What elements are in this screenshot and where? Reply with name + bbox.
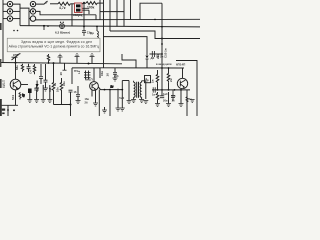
resistor R10 vertical — [157, 92, 159, 93]
diode D2 — [146, 56, 149, 59]
svg-text:1и: 1и — [152, 93, 155, 97]
svg-text:20и: 20и — [163, 99, 168, 103]
capacitor C9 below bus — [82, 26, 86, 36]
resistor R7 vertical — [61, 78, 63, 82]
resistor R11 cathode — [19, 92, 21, 99]
svg-text:6И1П: 6И1П — [2, 79, 6, 88]
capacitor C11 stub — [63, 69, 67, 71]
terminal J5 — [30, 9, 35, 14]
node R9 top — [168, 67, 170, 69]
trimmer capacitor CT — [12, 54, 20, 60]
node grid junction — [15, 62, 17, 64]
wire right area y90 — [152, 89, 190, 91]
transformer T1 secondary — [140, 82, 142, 97]
node x110 — [109, 89, 111, 91]
svg-text:1и: 1и — [151, 79, 155, 83]
left edge artifact 3 — [0, 79, 2, 88]
transistor V3 envelope — [177, 78, 187, 88]
wire J5 long line — [36, 11, 96, 14]
capacitor C7 — [77, 86, 79, 94]
terminal J1 — [7, 1, 12, 6]
capacitor C5 — [45, 64, 47, 80]
wire vertical x110 — [109, 0, 111, 31]
ground GND7 — [120, 108, 125, 111]
wire elbow y31 — [110, 31, 200, 39]
transistor V2 electrodes — [91, 84, 93, 89]
node x162 y44 — [161, 43, 163, 45]
ground GND-b — [75, 54, 80, 64]
wire J2 link — [13, 10, 20, 12]
ground GND13 — [166, 92, 171, 107]
resistor R5 above bus — [47, 54, 49, 63]
resistor R2 — [86, 2, 97, 5]
wire R1 to X1 — [70, 3, 74, 5]
wire C8b lead — [128, 98, 130, 101]
svg-text:10к: 10к — [62, 81, 66, 86]
terminal J4 — [30, 1, 35, 6]
capacitor C3 — [27, 67, 31, 69]
crystal X1 red box — [75, 3, 83, 13]
ground row GND4 — [41, 85, 46, 103]
node bottom left — [7, 109, 9, 111]
svg-text:2и: 2и — [169, 78, 173, 82]
capacitor C10 — [161, 90, 163, 96]
wire J1 stub — [3, 3, 7, 5]
wire V2 right — [98, 87, 122, 90]
transistor V2 envelope — [90, 82, 99, 91]
wire J2 stub — [3, 10, 7, 12]
crystal X1 plates — [76, 4, 81, 7]
resistor R4 vertical — [33, 64, 35, 74]
wire vertical x124 — [123, 0, 125, 27]
wire to tube grid — [15, 57, 17, 79]
svg-text:С10 1и: С10 1и — [164, 48, 168, 58]
capacitor C6 — [69, 90, 73, 92]
diode D1 — [36, 84, 39, 87]
wire V2 top feed — [93, 68, 95, 82]
wire AGC vertical x118 — [117, 89, 119, 108]
svg-text:ПЧ: ПЧ — [74, 69, 78, 73]
wire V2 bottom pins — [92, 90, 99, 117]
transformer T1 core — [137, 82, 139, 98]
svg-text:С4: С4 — [29, 70, 33, 74]
wire J5 left stub — [29, 10, 30, 12]
wire main ground bus — [20, 26, 200, 27]
wire left vertical rail — [2, 0, 4, 63]
node x162 bus2 — [161, 67, 163, 69]
ground GND9 — [143, 101, 148, 104]
node x162 y38 — [161, 38, 163, 40]
node at 97 — [96, 26, 98, 28]
svg-text:100к: 100к — [87, 5, 95, 9]
wire inner riser — [28, 11, 30, 25]
node x162 bus — [161, 26, 163, 28]
resistor R8 vertical — [157, 70, 159, 74]
terminal J3 — [7, 16, 12, 21]
node x162b — [161, 89, 163, 91]
output transformer box — [145, 76, 151, 83]
wire T1 top lead — [122, 80, 129, 82]
ground GND10b — [127, 101, 132, 104]
wire vertical x100 — [99, 0, 101, 20]
wire jog x122 — [122, 54, 136, 68]
wire vertical x130 — [130, 0, 132, 19]
left edge artifact 2 — [0, 59, 1, 67]
node dots pair — [13, 30, 15, 32]
ground GND15 — [190, 100, 195, 103]
wire drop to bus2 — [95, 15, 97, 20]
wire feed drop left — [71, 4, 73, 27]
svg-text:68к: 68к — [15, 65, 19, 70]
wire X1 to R2 — [82, 2, 86, 5]
svg-text:Айна строительнымй VC-1 должна: Айна строительнымй VC-1 должна принята с… — [9, 45, 100, 49]
ground GND-V2 — [93, 103, 98, 106]
wire V3 pin right — [186, 90, 188, 116]
ground GND11 — [116, 108, 121, 111]
svg-text:10: 10 — [59, 72, 63, 76]
wire x162 lower — [161, 68, 163, 90]
ground GND-c — [90, 54, 95, 64]
wire antenna lead — [36, 1, 48, 4]
capacitor C16 — [34, 88, 39, 90]
capacitor C8 small — [113, 68, 118, 81]
capacitor C14 — [171, 90, 175, 101]
wire V1 anode — [21, 84, 28, 86]
capacitor C4 — [40, 64, 42, 76]
svg-text:2б: 2б — [85, 100, 88, 104]
node x157 — [157, 89, 159, 91]
wire long grid bus — [36, 18, 200, 21]
node V3 cathode — [180, 89, 182, 91]
svg-text:8и: 8и — [189, 97, 192, 101]
node at 44 — [43, 25, 45, 27]
resistor R12 — [186, 96, 188, 103]
svg-text:1б: 1б — [106, 73, 110, 77]
wire right top stub — [176, 60, 197, 62]
ground GND-d — [43, 86, 48, 91]
svg-text:4,7к: 4,7к — [59, 6, 66, 10]
wire bus right horizontal — [100, 67, 184, 69]
wire top-right box — [140, 3, 162, 19]
wire V3 cathode — [180, 90, 182, 104]
left edge artifact 1 — [0, 23, 2, 30]
wire R2 right — [97, 2, 103, 4]
wire J6 left stub — [29, 18, 30, 20]
wire D2 to bus — [146, 59, 148, 68]
transistor V1 electrodes — [12, 82, 14, 88]
node bus x88 — [88, 63, 90, 65]
svg-text:6,3 В(мил): 6,3 В(мил) — [55, 30, 70, 34]
wire cap stub x152 — [150, 53, 163, 55]
wire V3 top feed — [182, 68, 184, 78]
inductor DR1 — [96, 27, 98, 31]
wire bottom left drop — [7, 105, 9, 116]
transformer T1 primary — [134, 82, 136, 97]
ground row GND5 — [47, 85, 52, 103]
wire bus left horizontal — [0, 63, 122, 64]
node x162 y54 — [161, 53, 163, 55]
svg-text:6И1П: 6И1П — [85, 78, 93, 82]
ground GND10 — [102, 107, 107, 113]
svg-text:5б1: 5б1 — [11, 95, 15, 100]
wire vertical x103 — [103, 0, 105, 68]
capacitor C15 body — [28, 89, 32, 94]
node bus x53 — [53, 62, 55, 64]
wire inner jog — [20, 8, 29, 11]
svg-text:АД: АД — [48, 88, 52, 92]
note box — [7, 38, 100, 52]
wire J3 stub — [3, 18, 7, 20]
svg-text:Здесь видны и щит медн. Фидера: Здесь видны и щит медн. Фидера со дел — [21, 40, 92, 44]
node V3 left — [174, 89, 176, 91]
transistor V1 envelope — [10, 79, 21, 90]
node x122 — [121, 89, 123, 91]
node X1 top — [83, 2, 85, 4]
ground GND8b — [139, 100, 144, 103]
node x70 — [70, 104, 72, 106]
ground GND14 — [179, 104, 184, 107]
svg-text:6П14П: 6П14П — [176, 63, 185, 67]
bottom left blob — [2, 109, 5, 111]
lamp HL1 — [60, 24, 65, 29]
svg-text:1и0: 1и0 — [163, 92, 168, 96]
transistor V3 electrodes — [179, 81, 181, 87]
wire detector vertical x122.3 — [121, 81, 123, 109]
wire vertical x117 — [116, 0, 118, 27]
capacitor C2 — [83, 8, 90, 10]
antenna hatch — [45, 2, 48, 3]
node at 84 — [83, 25, 85, 27]
IF can rectangle — [72, 68, 100, 84]
wire V1 cathode — [15, 90, 17, 106]
ground GND6 — [76, 96, 81, 103]
ground row GND2 — [27, 93, 32, 103]
svg-text:Др: Др — [90, 31, 94, 35]
wire elbow y36.6 — [104, 37, 148, 55]
left edge artifact 4 — [0, 99, 2, 116]
svg-text:5и0: 5и0 — [119, 96, 124, 100]
wire bottom join — [54, 104, 71, 106]
capacitor C12 — [152, 51, 154, 57]
svg-text:10и: 10и — [100, 71, 104, 76]
node on grid bus — [154, 19, 156, 21]
resistor R3 vertical — [21, 64, 23, 72]
capacitor C9 — [153, 87, 155, 92]
ground GND-a — [58, 54, 63, 63]
wire x162 long vertical — [161, 3, 163, 68]
resistor R9 vertical — [168, 68, 170, 73]
wire bottom left horizontal — [0, 104, 18, 106]
wire x110 down — [109, 90, 111, 116]
wire T1 leads — [129, 81, 146, 100]
svg-text:Тр: Тр — [145, 78, 149, 82]
wire x70 vertical — [70, 92, 72, 116]
node bottom left 2 — [13, 109, 15, 111]
wire J3 link — [13, 18, 20, 20]
resistor R6 vertical — [53, 63, 55, 82]
resistor R1 — [58, 2, 70, 5]
wire C2 stub — [88, 10, 90, 14]
ground GND8 — [131, 100, 136, 103]
svg-text:2и2: 2и2 — [156, 54, 160, 59]
terminal J6 — [30, 16, 35, 21]
svg-text:кварц: кварц — [73, 13, 82, 17]
terminal J2 — [7, 9, 12, 14]
IF coil inside — [86, 71, 89, 80]
svg-text:47: 47 — [22, 93, 26, 97]
ground row GND3 — [34, 85, 39, 103]
ground GND12 — [155, 101, 160, 107]
wire J1 to riser — [13, 4, 20, 26]
wire right rail — [196, 60, 198, 116]
node x168 — [168, 89, 170, 91]
wire top feed — [50, 3, 58, 5]
wire stub x64 — [64, 63, 66, 70]
svg-text:в анод цепи: в анод цепи — [156, 63, 172, 66]
svg-text:10к: 10к — [56, 87, 60, 92]
wire horizontal y11.6 — [100, 11, 124, 13]
svg-text:КПЕ: КПЕ — [13, 53, 19, 57]
node x104 — [104, 89, 106, 91]
node bus x48 — [48, 62, 50, 64]
svg-text:с1б: с1б — [114, 74, 119, 78]
svg-text:Д2: Д2 — [151, 56, 155, 60]
wire crystal drop — [83, 2, 85, 26]
